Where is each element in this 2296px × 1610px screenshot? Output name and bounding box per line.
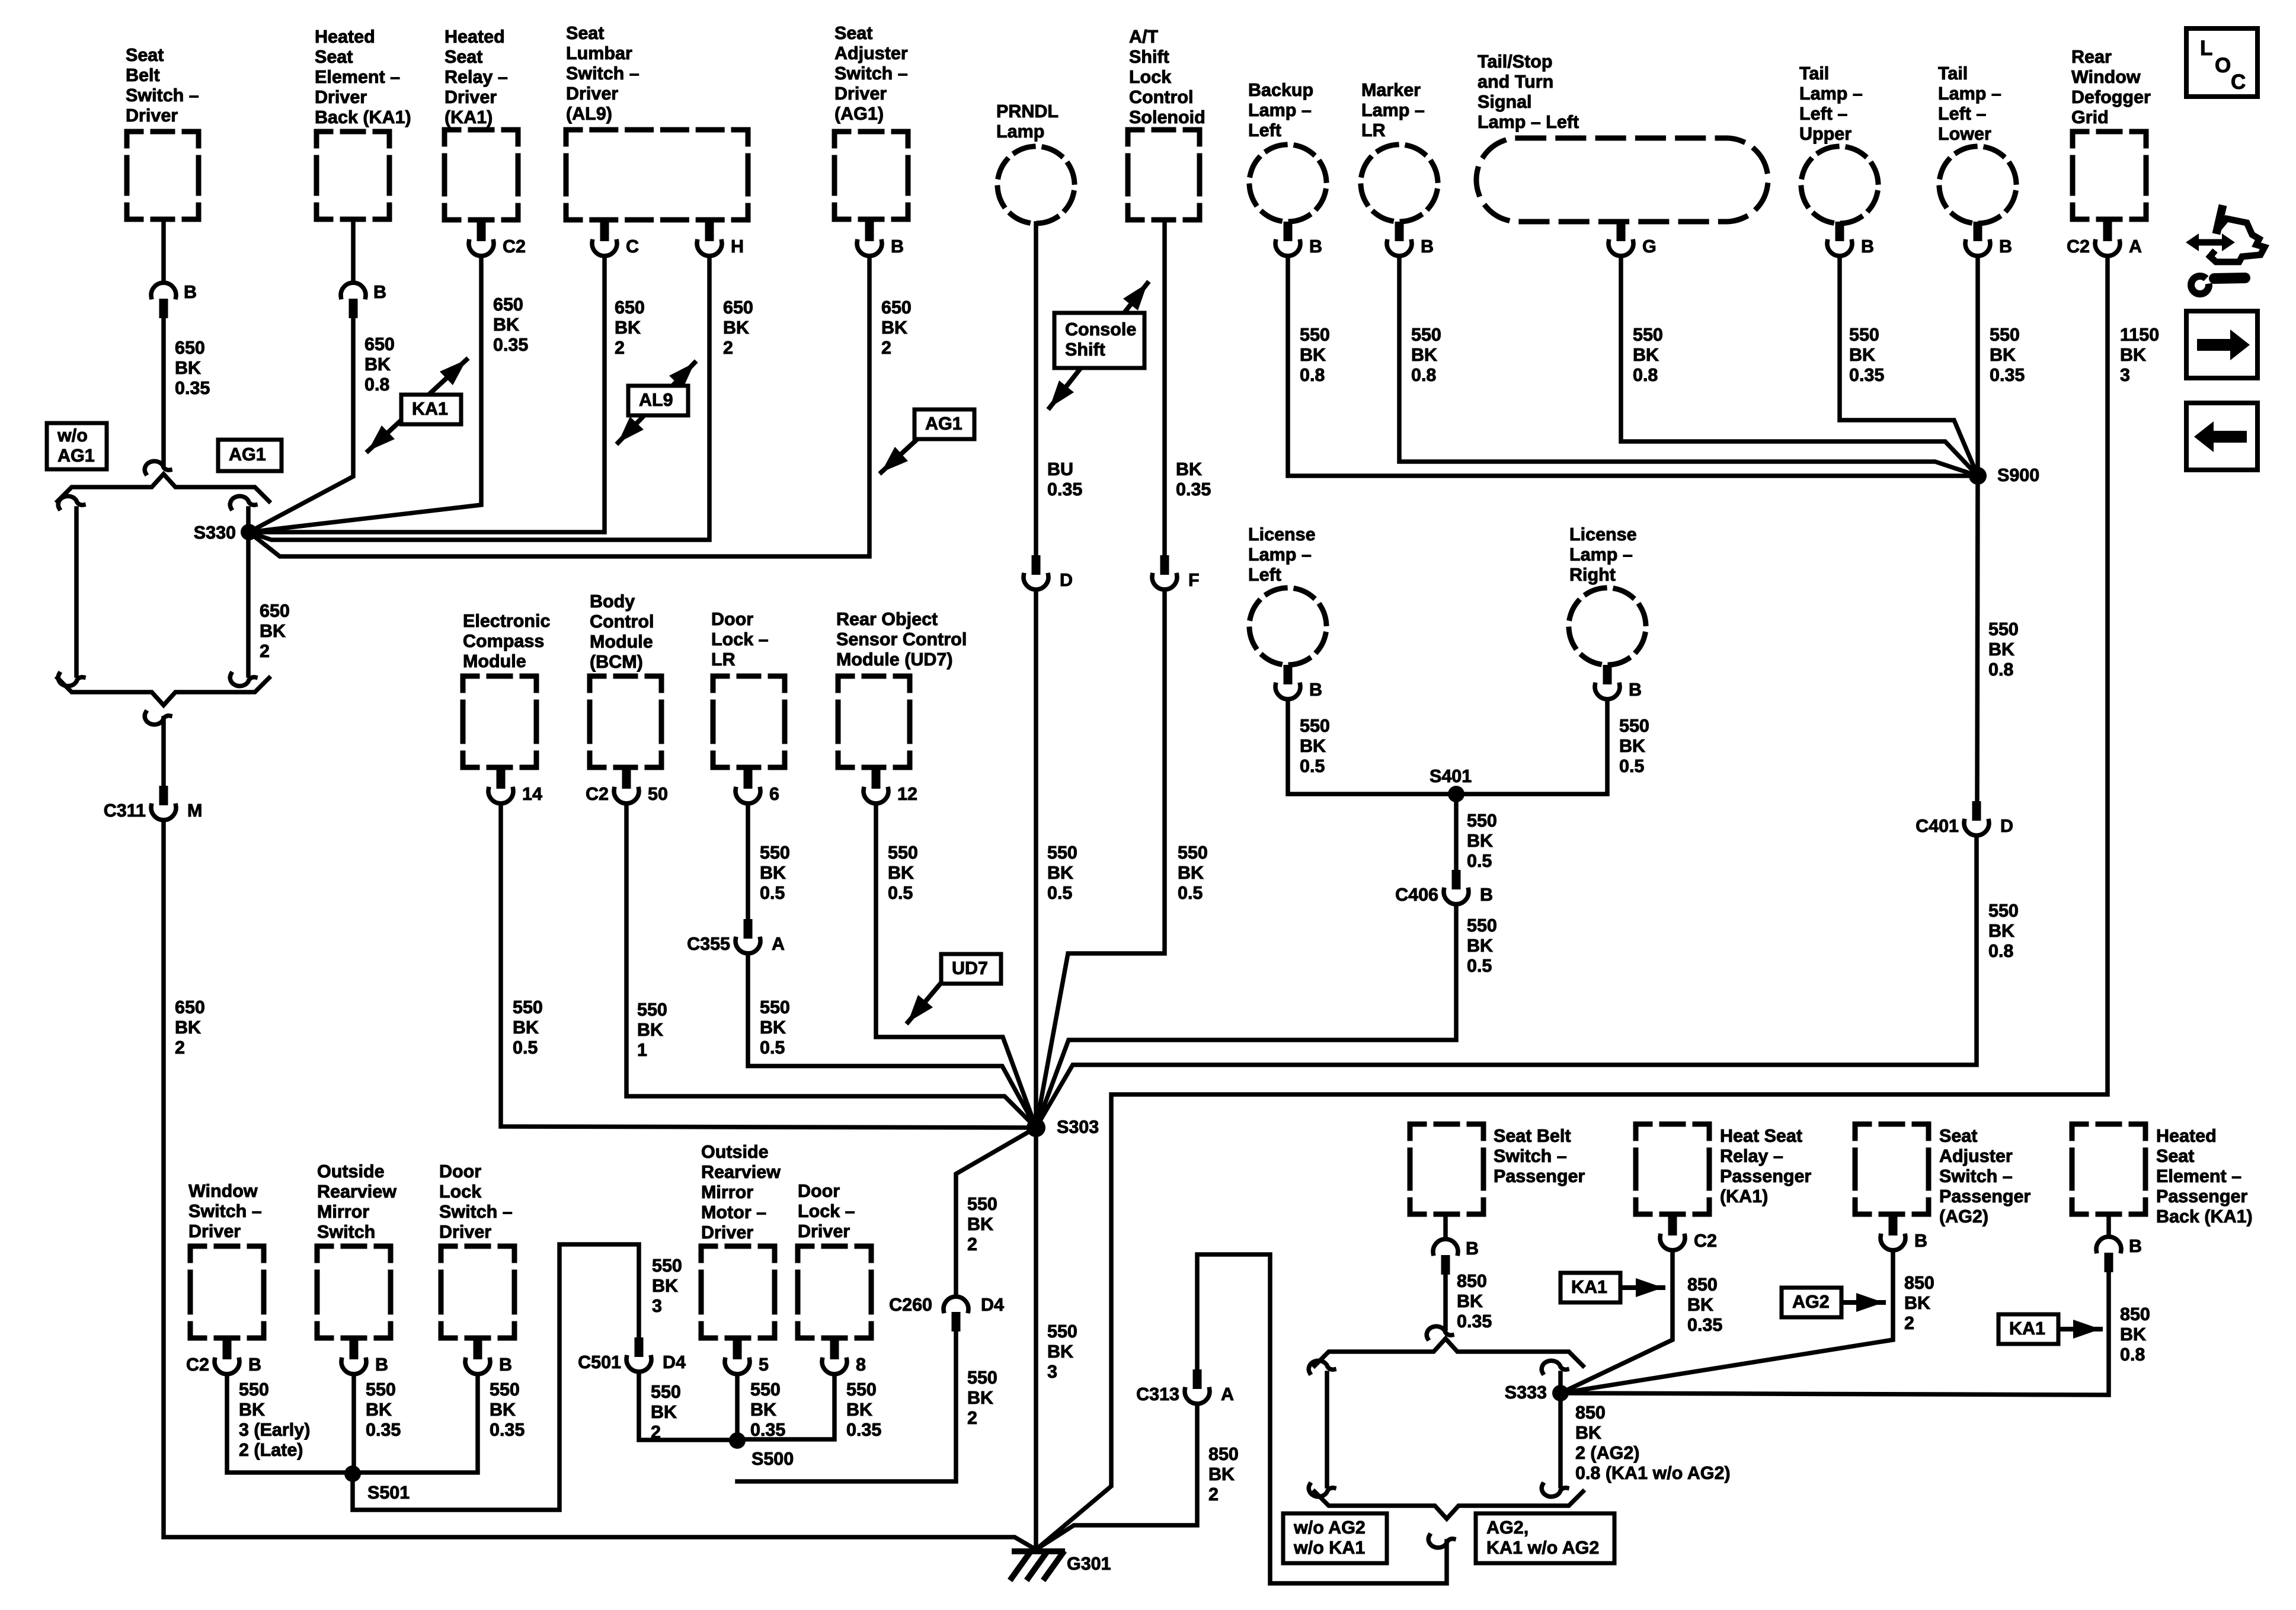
hook right drop bottom — [230, 674, 255, 686]
svg-text:0.35: 0.35 — [1047, 479, 1082, 500]
svg-text:G: G — [1642, 236, 1657, 257]
component Body Control Module (BCM) — [590, 591, 661, 767]
wire left option drop — [74, 508, 79, 676]
wire 650 BK 2 C pin to S330 — [249, 256, 605, 532]
legend box arrow right — [2186, 311, 2257, 378]
svg-text:C260: C260 — [889, 1295, 932, 1315]
wire 550 BK 0.35 tail lower through S900 — [1975, 256, 1980, 476]
pin 6 (Door Lock - LR) — [736, 769, 779, 804]
svg-text:Seat: Seat — [315, 47, 353, 67]
connector B (Seat Belt Switch - Driver) — [151, 282, 197, 318]
svg-text:650: 650 — [175, 997, 205, 1017]
svg-text:Lamp –: Lamp – — [1361, 100, 1425, 120]
svg-text:0.5: 0.5 — [1300, 756, 1325, 776]
svg-text:BK: BK — [1633, 345, 1659, 365]
wire 550 BK 0.35 door lock to S500 — [737, 1374, 834, 1439]
wire left option drop — [1325, 1373, 1329, 1486]
svg-text:Motor –: Motor – — [701, 1202, 766, 1222]
splice S401 — [1448, 786, 1464, 802]
svg-text:Tail/Stop: Tail/Stop — [1478, 52, 1553, 72]
svg-text:0.5: 0.5 — [1178, 883, 1203, 903]
wire right option drop through S330 — [246, 508, 251, 676]
wire 550 BK 0.35 tail upper to S900 — [1840, 256, 1978, 476]
svg-text:S401: S401 — [1430, 766, 1472, 786]
wire 550 BK 3 S501 riser to C501 — [353, 1244, 639, 1510]
wire 850 BK 0.35 to S333 brace — [1443, 1275, 1448, 1329]
pin B (Tail Lamp - Left - Upper) — [1827, 222, 1874, 257]
wire 550 BK window switch to S501 — [227, 1374, 353, 1473]
svg-text:2 (Late): 2 (Late) — [239, 1440, 303, 1460]
svg-text:550: 550 — [239, 1379, 269, 1400]
pin G (Tail/Stop and Turn Signal Lamp) — [1609, 222, 1657, 257]
wire 650 BK 2 to S330 — [249, 256, 869, 556]
svg-text:Electronic: Electronic — [463, 611, 551, 631]
svg-text:O: O — [2215, 54, 2231, 77]
pin 8 (Door Lock - Driver) — [822, 1340, 866, 1375]
svg-text:C: C — [626, 236, 639, 257]
svg-text:Lumbar: Lumbar — [566, 43, 632, 63]
svg-text:0.35: 0.35 — [1687, 1315, 1722, 1335]
svg-text:5: 5 — [759, 1355, 769, 1375]
svg-text:0.8: 0.8 — [1988, 941, 2013, 961]
component Tail/Stop and Turn Signal Lamp - Left — [1476, 52, 1768, 222]
svg-text:C401: C401 — [1916, 816, 1959, 836]
svg-text:Heated: Heated — [445, 27, 505, 47]
svg-text:Switch –: Switch – — [834, 63, 908, 84]
svg-text:A: A — [1221, 1384, 1234, 1404]
svg-text:2: 2 — [1904, 1313, 1914, 1333]
svg-text:Heat Seat: Heat Seat — [1720, 1126, 1802, 1146]
tag AL9 with arrow — [618, 363, 695, 443]
svg-text:850: 850 — [2120, 1304, 2150, 1324]
svg-text:Module: Module — [463, 651, 526, 671]
svg-text:Adjuster: Adjuster — [834, 43, 908, 63]
svg-text:B: B — [248, 1355, 261, 1375]
svg-text:0.8: 0.8 — [1411, 365, 1436, 385]
svg-text:850: 850 — [1904, 1273, 1934, 1293]
svg-text:Control: Control — [590, 612, 654, 632]
component Tail Lamp - Left - Lower — [1932, 63, 2023, 231]
svg-text:C: C — [2231, 71, 2246, 94]
svg-text:Driver: Driver — [798, 1221, 850, 1241]
svg-text:0.8: 0.8 — [1988, 660, 2013, 680]
svg-text:Lamp: Lamp — [996, 121, 1044, 142]
svg-text:KA1 w/o AG2: KA1 w/o AG2 — [1486, 1538, 1599, 1558]
hook right drop top — [230, 496, 255, 508]
component Door Lock - LR — [711, 609, 785, 767]
svg-text:w/o AG2: w/o AG2 — [1293, 1518, 1366, 1538]
svg-text:0.35: 0.35 — [1990, 365, 2025, 385]
svg-text:550: 550 — [1047, 1321, 1077, 1342]
svg-text:550: 550 — [490, 1379, 520, 1400]
component Door Lock - Driver — [798, 1181, 871, 1338]
component Seat Lumbar Switch - Driver (AL9) — [566, 23, 748, 220]
svg-text:D: D — [1060, 570, 1073, 590]
wire 550 BK 0.35 door lock switch to S501 — [353, 1374, 478, 1473]
svg-text:650: 650 — [493, 295, 523, 315]
svg-text:Switch –: Switch – — [439, 1202, 513, 1222]
svg-text:and Turn: and Turn — [1478, 72, 1553, 92]
svg-text:D: D — [2000, 816, 2013, 836]
svg-text:0.35: 0.35 — [750, 1420, 785, 1440]
svg-text:Switch –: Switch – — [566, 63, 639, 84]
svg-text:Switch –: Switch – — [1939, 1166, 2013, 1186]
svg-text:Rearview: Rearview — [317, 1182, 396, 1202]
pin 14 (Electronic Compass Module) — [488, 769, 542, 804]
svg-text:0.35: 0.35 — [366, 1420, 401, 1440]
component Outside Rearview Mirror Motor - Driver — [701, 1142, 781, 1338]
svg-text:S900: S900 — [1997, 465, 2039, 485]
component Rear Window Defogger Grid — [2071, 47, 2151, 219]
wire 550 BK 0.5 D to S303 — [1034, 590, 1038, 1128]
svg-text:850: 850 — [1687, 1275, 1718, 1295]
svg-text:Heated: Heated — [315, 27, 375, 47]
svg-text:Mirror: Mirror — [701, 1182, 753, 1202]
svg-text:2: 2 — [651, 1422, 661, 1442]
svg-text:Driver: Driver — [445, 87, 497, 107]
svg-text:Marker: Marker — [1361, 80, 1421, 100]
svg-text:550: 550 — [652, 1256, 682, 1276]
svg-text:550: 550 — [750, 1379, 781, 1400]
wire 850 BK 2 C313 to G301 — [1036, 1404, 1197, 1550]
svg-text:Lamp – Left: Lamp – Left — [1478, 112, 1579, 132]
pin B (Outside Rearview Mirror Switch) — [341, 1340, 388, 1375]
svg-text:BK: BK — [846, 1400, 872, 1420]
svg-text:BK: BK — [651, 1402, 677, 1422]
wire right option drop through S333 — [1558, 1373, 1563, 1486]
tag KA1 with arrow — [1998, 1314, 2100, 1344]
svg-text:D4: D4 — [981, 1295, 1004, 1315]
tag w/o AG1 — [47, 423, 107, 469]
svg-text:Passenger: Passenger — [1720, 1166, 1811, 1186]
svg-text:Back (KA1): Back (KA1) — [315, 107, 411, 127]
svg-text:KA1: KA1 — [1571, 1277, 1607, 1297]
wire 550 BK 2 C260 to S500 — [737, 1331, 956, 1481]
connector C501 D4 — [578, 1337, 686, 1372]
splice S900 — [1969, 467, 1987, 485]
component Outside Rearview Mirror Switch — [317, 1161, 396, 1338]
svg-text:Switch: Switch — [317, 1222, 375, 1242]
svg-text:B: B — [184, 282, 197, 302]
svg-text:BK: BK — [1904, 1293, 1930, 1313]
wire 850 BK 0.35 relay to S333 — [1560, 1250, 1673, 1393]
svg-text:BK: BK — [1619, 736, 1645, 756]
svg-text:BK: BK — [1990, 345, 2016, 365]
connector F (A/T shift lock) — [1152, 555, 1200, 590]
svg-text:AG1: AG1 — [229, 444, 266, 465]
brace S330 bottom — [57, 678, 269, 705]
splice S330 — [241, 524, 257, 540]
svg-text:Element –: Element – — [2156, 1166, 2241, 1186]
svg-text:2: 2 — [1208, 1484, 1219, 1505]
svg-text:Seat: Seat — [834, 23, 872, 43]
connector C2 (Heated Seat Relay - Driver) — [469, 222, 526, 257]
svg-text:S500: S500 — [752, 1449, 794, 1469]
svg-text:850: 850 — [1457, 1271, 1487, 1291]
svg-text:Driver: Driver — [701, 1222, 753, 1243]
pin B (Marker Lamp - LR) — [1387, 222, 1434, 257]
wire 550 BK 0.5 C406 to S303 — [1036, 904, 1456, 1128]
legend box arrow left — [2186, 403, 2257, 470]
svg-text:Left: Left — [1248, 120, 1281, 140]
wire 850 BK 2 adjuster to S333 — [1560, 1250, 1893, 1393]
svg-text:2: 2 — [967, 1234, 977, 1254]
svg-text:Seat Belt: Seat Belt — [1494, 1126, 1571, 1146]
svg-text:0.5: 0.5 — [760, 883, 785, 903]
svg-text:C2: C2 — [186, 1355, 209, 1375]
svg-text:0.5: 0.5 — [888, 883, 913, 903]
svg-text:Driver: Driver — [439, 1222, 491, 1242]
svg-text:BK: BK — [967, 1214, 993, 1234]
component Heated Seat Element - Passenger Back (KA1) — [2072, 1124, 2253, 1227]
svg-text:BK: BK — [1988, 921, 2014, 941]
svg-text:550: 550 — [967, 1194, 997, 1214]
svg-text:Lock –: Lock – — [798, 1201, 855, 1221]
svg-text:Seat: Seat — [445, 47, 482, 67]
tag UD7 with arrow — [908, 954, 1001, 1022]
component Heated Seat Element - Driver Back (KA1) — [315, 27, 411, 219]
svg-text:B: B — [891, 236, 904, 257]
svg-text:Backup: Backup — [1248, 80, 1313, 100]
svg-text:B: B — [1629, 680, 1642, 700]
connector C401 D — [1916, 801, 2013, 836]
svg-text:550: 550 — [1990, 325, 2020, 345]
hook left drop bottom — [1309, 1484, 1334, 1497]
svg-text:Left: Left — [1248, 565, 1281, 585]
wire 550 BK 2 C501 to S500 — [639, 1372, 737, 1440]
svg-text:Element –: Element – — [315, 67, 400, 87]
wire 550 BK 0.35 mirror motor to S500 — [735, 1374, 740, 1441]
pin B (Backup Lamp - Left) — [1275, 222, 1322, 257]
svg-text:550: 550 — [1988, 901, 2019, 921]
wire 550 BK 0.5 F to S303 — [1036, 590, 1165, 1128]
legend box LOC — [2186, 28, 2257, 97]
svg-text:550: 550 — [651, 1382, 681, 1402]
svg-text:LR: LR — [711, 649, 736, 670]
pin H (Seat Lumbar Switch) — [697, 222, 744, 257]
wire 550 BK 0.5 S401 to C406 — [1454, 794, 1459, 870]
svg-text:3: 3 — [2120, 365, 2130, 385]
svg-text:850: 850 — [1208, 1444, 1239, 1464]
svg-text:Passenger: Passenger — [1494, 1166, 1585, 1186]
svg-text:2: 2 — [881, 338, 891, 358]
wire 650 BK 0.8 to S330 — [249, 319, 353, 532]
svg-text:Tail: Tail — [1938, 63, 1968, 84]
svg-text:0.5: 0.5 — [513, 1038, 538, 1058]
svg-text:550: 550 — [1047, 843, 1077, 863]
connector B (Heated Seat Element - Driver Back) — [341, 282, 386, 318]
svg-text:0.35: 0.35 — [1849, 365, 1884, 385]
svg-text:F: F — [1188, 570, 1200, 590]
wire brace to C311 — [161, 718, 166, 786]
svg-text:S330: S330 — [194, 523, 236, 543]
svg-text:550: 550 — [366, 1379, 396, 1400]
svg-text:License: License — [1248, 524, 1316, 545]
svg-text:3: 3 — [652, 1296, 662, 1316]
wire 550 BK 1 BCM to S303 — [626, 804, 1036, 1128]
svg-text:C2: C2 — [1694, 1231, 1717, 1251]
component Marker Lamp - LR — [1354, 80, 1445, 229]
component Seat Belt Switch - Driver — [126, 45, 199, 219]
svg-text:0.35: 0.35 — [493, 335, 528, 355]
svg-text:BK: BK — [615, 318, 641, 338]
svg-text:BK: BK — [760, 863, 786, 883]
hook left drop top — [58, 496, 84, 508]
connector C2 pin 50 (BCM) — [586, 769, 668, 804]
wire 550 BK 0.5 to S401 — [1456, 699, 1607, 794]
svg-text:Outside: Outside — [317, 1161, 385, 1182]
splice S333 — [1552, 1385, 1569, 1401]
svg-text:BK: BK — [1208, 1464, 1235, 1484]
svg-text:BK: BK — [1047, 863, 1073, 883]
svg-text:3: 3 — [1047, 1362, 1057, 1382]
svg-text:(KA1): (KA1) — [445, 107, 493, 127]
svg-text:L: L — [2200, 37, 2212, 60]
svg-text:550: 550 — [888, 843, 918, 863]
svg-text:Driver: Driver — [126, 105, 178, 126]
svg-text:Left –: Left – — [1799, 104, 1847, 124]
svg-text:(AG2): (AG2) — [1939, 1206, 1988, 1227]
svg-text:BK: BK — [881, 318, 907, 338]
component Tail Lamp - Left - Upper — [1794, 63, 1885, 231]
svg-text:550: 550 — [1849, 325, 1879, 345]
svg-text:650: 650 — [723, 297, 753, 318]
component Rear Object Sensor Control Module (UD7) — [836, 609, 967, 767]
tag AG2 with arrow — [1782, 1288, 1884, 1317]
svg-text:Upper: Upper — [1799, 124, 1851, 144]
svg-text:2: 2 — [967, 1408, 977, 1428]
svg-text:BK: BK — [1687, 1295, 1713, 1315]
wire 550 BK 0.5 to S401 — [1288, 699, 1456, 794]
svg-text:Seat: Seat — [2156, 1146, 2194, 1166]
svg-text:0.5: 0.5 — [1467, 851, 1492, 871]
svg-text:2: 2 — [260, 641, 270, 661]
connector C406 B — [1395, 870, 1493, 905]
svg-text:BK: BK — [1467, 831, 1493, 851]
svg-text:(KA1): (KA1) — [1720, 1186, 1768, 1206]
connector D (PRNDL lamp) — [1024, 555, 1073, 590]
svg-text:0.5: 0.5 — [1467, 956, 1492, 976]
svg-text:BK: BK — [260, 621, 286, 641]
component A/T Shift Lock Control Solenoid — [1128, 27, 1205, 220]
tag KA1 with arrow — [1560, 1273, 1663, 1302]
svg-text:LR: LR — [1361, 120, 1386, 140]
svg-text:0.35: 0.35 — [175, 378, 210, 398]
wire 550 BK 0.8 marker lamp to S900 — [1399, 256, 1978, 476]
svg-text:550: 550 — [1633, 325, 1663, 345]
svg-text:550: 550 — [513, 997, 543, 1017]
svg-text:BK: BK — [888, 863, 914, 883]
svg-text:B: B — [2129, 1236, 2142, 1256]
tag KA1 with arrow — [368, 360, 466, 451]
pin B (Door Lock Switch - Driver) — [465, 1340, 512, 1375]
svg-text:Relay –: Relay – — [1720, 1146, 1783, 1166]
svg-text:550: 550 — [760, 843, 790, 863]
svg-text:BK: BK — [760, 1017, 786, 1038]
svg-text:Solenoid: Solenoid — [1129, 107, 1205, 127]
pin C (Seat Lumbar Switch) — [592, 222, 639, 257]
svg-text:C2: C2 — [2067, 236, 2090, 257]
svg-text:Lower: Lower — [1938, 124, 1991, 144]
svg-text:Seat: Seat — [1939, 1126, 1977, 1146]
svg-text:B: B — [499, 1355, 512, 1375]
svg-text:BK: BK — [750, 1400, 776, 1420]
svg-text:Tail: Tail — [1799, 63, 1829, 84]
svg-text:C355: C355 — [687, 934, 730, 954]
wire BK 0.35 from solenoid — [1162, 220, 1167, 555]
component PRNDL Lamp — [990, 101, 1082, 231]
wire 550 BK 0.5 C355 to S303 — [748, 953, 1036, 1128]
component Electronic Compass Module — [463, 611, 551, 767]
svg-text:Switch –: Switch – — [126, 85, 199, 105]
svg-text:Window: Window — [2071, 67, 2141, 87]
svg-text:S303: S303 — [1057, 1117, 1099, 1137]
wire 550 BK 0.8 S900 to C401 — [1977, 476, 1978, 801]
hook below bottom brace — [145, 712, 170, 725]
svg-text:Compass: Compass — [463, 631, 544, 651]
svg-text:Sensor Control: Sensor Control — [836, 629, 967, 649]
svg-text:Lamp –: Lamp – — [1248, 545, 1312, 565]
svg-text:B: B — [1421, 236, 1434, 257]
svg-text:(AL9): (AL9) — [566, 104, 612, 124]
svg-text:BK: BK — [637, 1020, 663, 1040]
svg-text:B: B — [373, 282, 386, 302]
svg-text:Driver: Driver — [188, 1221, 241, 1241]
svg-text:BK: BK — [1047, 1342, 1073, 1362]
svg-text:0.8: 0.8 — [364, 375, 389, 395]
svg-text:(AG1): (AG1) — [834, 104, 884, 124]
connector C2 (Heat Seat Relay - Passenger) — [1660, 1216, 1717, 1251]
wire 550 BK 0.5 to S303 — [876, 804, 1036, 1128]
svg-text:6: 6 — [769, 784, 779, 804]
svg-text:Outside: Outside — [701, 1142, 769, 1162]
svg-text:2: 2 — [615, 338, 625, 358]
svg-text:550: 550 — [1178, 843, 1208, 863]
wire BU 0.35 from PRNDL Lamp — [1034, 223, 1038, 555]
wire Seat Belt Switch B lead — [161, 220, 166, 281]
tag w/o AG2 w/o KA1 — [1283, 1513, 1387, 1563]
svg-text:Signal: Signal — [1478, 92, 1532, 112]
pin B (Seat Adjuster Switch - Passenger) — [1881, 1216, 1927, 1251]
wire brace to C313 loop — [1197, 1254, 1447, 1583]
component Seat Adjuster Switch - Driver (AG1) — [834, 23, 908, 219]
svg-text:BK: BK — [239, 1400, 265, 1420]
svg-text:BK: BK — [366, 1400, 392, 1420]
svg-text:BK: BK — [1300, 345, 1326, 365]
hook right drop bottom — [1542, 1484, 1567, 1497]
svg-text:Rear: Rear — [2071, 47, 2112, 67]
connector C2 pin B (Window Switch - Driver) — [186, 1340, 261, 1375]
svg-text:550: 550 — [1300, 325, 1330, 345]
svg-text:8: 8 — [856, 1355, 866, 1375]
connector B (Seat Belt Switch - Passenger) — [1433, 1238, 1479, 1275]
svg-text:Driver: Driver — [834, 84, 887, 104]
hook right drop top — [1542, 1361, 1567, 1373]
svg-text:Switch –: Switch – — [188, 1201, 262, 1221]
svg-text:KA1: KA1 — [412, 399, 448, 419]
svg-text:Door: Door — [711, 609, 753, 629]
svg-text:BK: BK — [652, 1276, 678, 1296]
svg-text:Heated: Heated — [2156, 1126, 2217, 1146]
svg-text:B: B — [1999, 236, 2012, 257]
svg-text:AL9: AL9 — [639, 390, 673, 410]
svg-text:Body: Body — [590, 591, 635, 612]
svg-text:14: 14 — [522, 784, 542, 804]
svg-text:KA1: KA1 — [2009, 1318, 2045, 1339]
svg-text:Control: Control — [1129, 87, 1193, 107]
svg-text:S333: S333 — [1505, 1382, 1547, 1403]
svg-text:Lamp –: Lamp – — [1569, 545, 1633, 565]
